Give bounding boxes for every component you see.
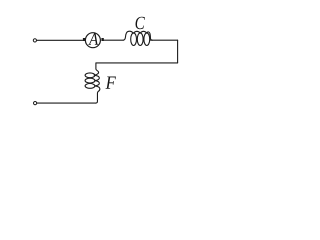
wire inductor C to right corner (151, 39, 178, 41)
inductor C ring 3 (144, 33, 150, 46)
wire T1 to ammeter (37, 39, 83, 41)
inductor C hump 2-3 (140, 31, 147, 33)
inductor C ring 1 (131, 33, 137, 46)
inductor F exit (95, 86, 100, 103)
terminal T2 (bottom left) (34, 102, 37, 105)
wire inductor F to terminal T2 (37, 102, 96, 104)
terminal T1 (top left) (33, 39, 36, 42)
wire right vertical (177, 40, 179, 63)
inductor F ring 1 (85, 73, 95, 78)
inductor C exit arc (147, 32, 153, 40)
wire mid horizontal to inductor F (96, 62, 177, 64)
ammeter U1 left pad (83, 38, 85, 41)
inductor F ring 3 (85, 84, 95, 89)
wire ammeter to inductor C (104, 39, 124, 41)
ammeter U1 body (85, 33, 100, 48)
label C (inductor C) (136, 17, 145, 30)
label F (inductor F) (106, 76, 116, 88)
inductor F arc 2-3 (95, 81, 99, 86)
inductor F arc 1-2 (95, 75, 99, 80)
label A (ammeter) (88, 33, 98, 44)
inductor F entry (94, 63, 99, 75)
inductor F ring 2 (85, 78, 95, 83)
inductor C entry arc (123, 31, 133, 40)
ammeter U1 right pad (101, 38, 103, 41)
inductor C hump 1-2 (134, 31, 141, 33)
inductor C ring 2 (137, 33, 143, 46)
